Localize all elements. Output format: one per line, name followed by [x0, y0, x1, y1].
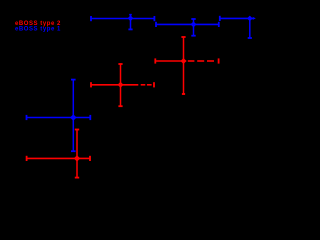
blue point B2 x error bar: [91, 16, 154, 21]
svg-text:eBOSS type 1: eBOSS type 1: [15, 26, 61, 32]
blue marker B2 diamond: [128, 15, 134, 21]
blue point B4 y error bar: [248, 16, 252, 38]
blue point B4 x error bar with arrow end: [220, 16, 253, 21]
blue point B3 y error bar: [191, 19, 195, 36]
red point R3 x error bar (solid left, dashed right): [155, 58, 218, 63]
blue point B4 arrowhead: [253, 17, 256, 20]
red marker R3 diamond: [181, 58, 187, 64]
red point R1 y error bar: [75, 130, 79, 178]
red marker R1 diamond: [74, 155, 80, 161]
red point R2 y error bar: [118, 64, 122, 106]
red marker R2 diamond: [118, 82, 124, 88]
red point R2 x error bar (solid left, dashed right): [91, 82, 154, 87]
blue marker B1 diamond: [70, 114, 77, 121]
blue marker B3 diamond: [191, 21, 197, 27]
blue marker B4 diamond: [247, 16, 253, 22]
blue point B3 x error bar: [156, 22, 219, 27]
blue point B2 y error bar: [128, 15, 132, 30]
red point R1 x error bar: [27, 156, 90, 161]
blue point B1 x error bar: [27, 115, 91, 120]
blue point B1 y error bar: [71, 80, 76, 152]
red point R3 y error bar: [181, 37, 185, 94]
